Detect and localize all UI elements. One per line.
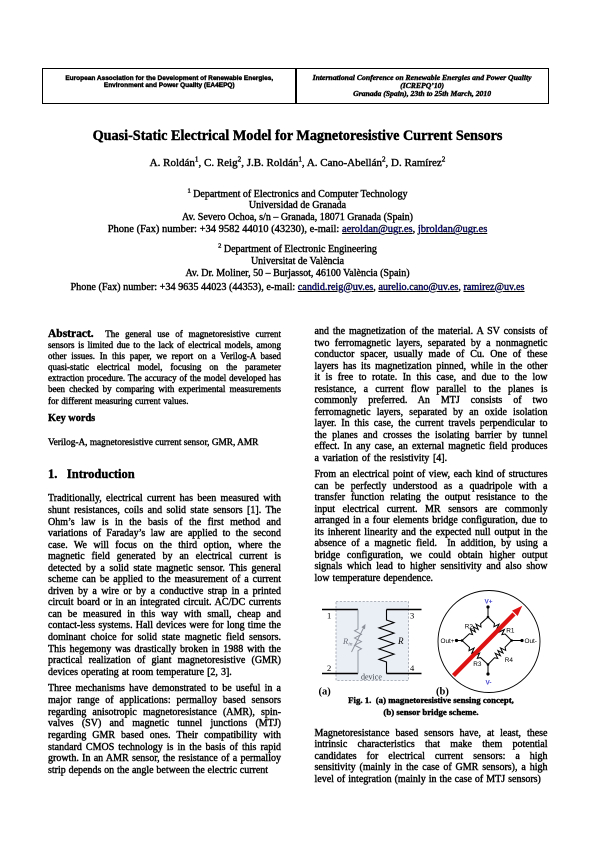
title (0, 128, 595, 145)
header left box (42, 68, 297, 104)
header right box (295, 68, 549, 104)
affiliation 2 (0, 244, 595, 294)
svg-text:R: R (397, 636, 404, 646)
svg-text:2: 2 (327, 663, 331, 673)
affiliation 1 (0, 189, 595, 237)
svg-text:3: 3 (410, 611, 414, 621)
device box (336, 602, 409, 681)
node dots (487, 616, 490, 619)
authors (0, 157, 595, 169)
resistor R2 (top-left edge) (462, 617, 488, 641)
red current arrow (454, 614, 515, 676)
resistor R1 (top-right edge) (488, 617, 512, 641)
resistor R (379, 610, 394, 674)
resistor R4 (bottom-right edge) (488, 641, 512, 665)
V- lead (487, 665, 489, 675)
svg-text:V-: V- (486, 680, 492, 687)
svg-text:R2: R2 (465, 624, 474, 631)
svg-text:V+: V+ (485, 599, 493, 606)
V+ lead (487, 607, 489, 618)
left column (48, 329, 281, 777)
wire bottom-right (387, 673, 422, 675)
Out+ lead (456, 640, 462, 642)
resistor R3 (bottom-left edge) (462, 641, 488, 665)
right column last paragraph (315, 728, 548, 786)
svg-text:Out-: Out- (525, 638, 537, 645)
svg-text:4: 4 (410, 663, 415, 673)
resistor Rin (variable, grey) (355, 610, 362, 674)
wire top-right (387, 609, 422, 611)
svg-text:device: device (361, 673, 382, 682)
Out- lead (512, 640, 523, 642)
svg-text:Out+: Out+ (441, 638, 455, 645)
figure 1 (300, 580, 562, 702)
right column (315, 326, 548, 584)
wire top-left (322, 609, 358, 611)
bridge circle (438, 591, 540, 693)
figure caption (315, 695, 548, 719)
svg-text:R1: R1 (506, 628, 515, 635)
svg-text:R3: R3 (473, 661, 482, 668)
wire bottom-left (322, 673, 358, 675)
svg-text:1: 1 (327, 611, 331, 621)
svg-text:R4: R4 (505, 657, 514, 664)
